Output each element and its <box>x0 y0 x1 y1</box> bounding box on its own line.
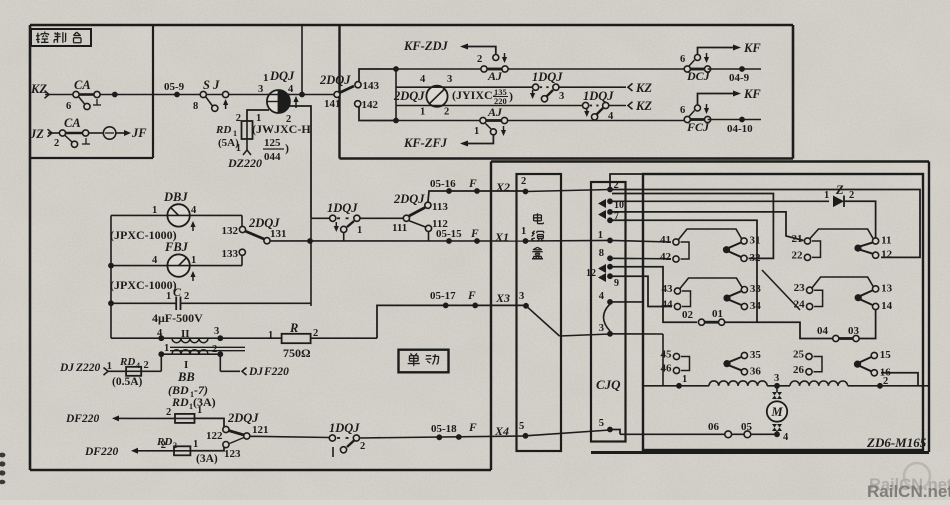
cable box 电缆盒 rectangle <box>517 174 562 451</box>
svg-text:2: 2 <box>360 441 365 452</box>
wire CJQ8 to contact 42 <box>610 257 671 260</box>
wire CJQ12 to 02 contact <box>610 267 697 323</box>
CJQ connector box rectangle <box>591 182 626 442</box>
wire top rail <box>396 68 687 70</box>
svg-text:4: 4 <box>288 84 294 95</box>
svg-text:131: 131 <box>270 228 287 240</box>
wire KF (DCJ) <box>698 48 735 55</box>
svg-text:121: 121 <box>252 424 269 436</box>
node winding 3 <box>774 383 780 389</box>
wire X1 to CJQ 1 <box>526 239 611 242</box>
svg-text:05-9: 05-9 <box>164 81 185 93</box>
wire CJQ spare to 21 group <box>610 212 804 241</box>
svg-text:1: 1 <box>164 343 169 354</box>
svg-text:2: 2 <box>313 328 318 339</box>
svg-text:DJ: DJ <box>59 362 75 374</box>
svg-text:41: 41 <box>660 234 671 246</box>
wire X4 to CJQ 5 <box>526 430 611 436</box>
svg-text:15: 15 <box>880 349 892 361</box>
wire winding rail <box>643 385 709 387</box>
svg-text:1: 1 <box>598 230 603 241</box>
svg-text:KZ: KZ <box>30 82 47 96</box>
contact group 25/26 <box>806 353 812 359</box>
svg-text:1: 1 <box>420 107 425 118</box>
svg-text:5: 5 <box>519 421 524 432</box>
svg-text:1: 1 <box>166 291 171 302</box>
contact group 31/32 <box>741 238 747 244</box>
right outdoor-area box bottom edge <box>591 451 929 454</box>
svg-text:22: 22 <box>792 249 804 261</box>
svg-text:04-10: 04-10 <box>727 123 753 135</box>
wire left bus <box>110 215 112 338</box>
wire overhead 21-11 <box>810 229 873 239</box>
svg-text:44: 44 <box>662 299 674 311</box>
node 04-9 <box>708 68 761 70</box>
watermark circle <box>904 463 930 489</box>
svg-text:BB: BB <box>177 370 195 384</box>
terminal 05 <box>744 431 751 438</box>
wire 112 down to X1 row <box>428 231 430 241</box>
svg-text:13: 13 <box>881 282 893 294</box>
relay DBJ (JPXC-1000) <box>111 214 242 216</box>
svg-text:6: 6 <box>680 105 685 116</box>
wire bottom rail <box>396 120 687 122</box>
svg-text:X3: X3 <box>495 291 510 305</box>
svg-text:45: 45 <box>661 349 673 361</box>
svg-text:4: 4 <box>783 432 789 443</box>
svg-text:R: R <box>289 321 298 335</box>
svg-text:32: 32 <box>750 252 762 264</box>
svg-text:25: 25 <box>793 349 805 361</box>
terminal CJQ 12 group <box>607 264 613 270</box>
wire 121 to 1DQJ contact <box>250 436 331 437</box>
contact group 33/34 <box>741 287 747 293</box>
diode Z <box>610 200 829 202</box>
wire jumper CJQ 4-3 <box>604 304 611 331</box>
contact group 23/24 <box>807 287 813 293</box>
wire 142 to bottom rail <box>359 107 396 121</box>
svg-text:1DQJ: 1DQJ <box>583 89 614 103</box>
svg-text:04: 04 <box>817 325 829 337</box>
svg-text:X1: X1 <box>494 230 509 244</box>
svg-text:3: 3 <box>519 291 524 302</box>
svg-text:2: 2 <box>236 113 241 124</box>
svg-text:1: 1 <box>682 374 687 385</box>
svg-text:4: 4 <box>152 255 158 266</box>
svg-text:ZD6-M165: ZD6-M165 <box>866 435 927 450</box>
svg-text:111: 111 <box>392 222 407 234</box>
contact group 21/22 <box>804 238 810 244</box>
svg-text:F220: F220 <box>263 366 289 378</box>
svg-text:02: 02 <box>682 309 694 321</box>
wire motor bottom row 06 05 <box>620 433 777 435</box>
svg-text:26: 26 <box>793 364 805 376</box>
transformer BB winding II bumps <box>172 338 181 343</box>
terminal CJQ spare arrows <box>607 198 613 204</box>
wire X2 to CJQ 2 <box>526 190 611 192</box>
svg-text:RailCN.net: RailCN.net <box>867 482 950 500</box>
svg-text:CJQ: CJQ <box>596 377 621 392</box>
svg-text:X4: X4 <box>494 424 509 438</box>
svg-text:(JYIXC-: (JYIXC- <box>452 88 497 102</box>
transformer BB winding I <box>161 353 220 355</box>
svg-text:KF: KF <box>743 87 761 101</box>
svg-text:AJ: AJ <box>487 69 503 83</box>
svg-text:F: F <box>467 290 476 302</box>
contact group 15/16 <box>871 352 877 358</box>
svg-text:): ) <box>509 89 513 103</box>
svg-text:3: 3 <box>258 84 263 95</box>
svg-text:FCJ: FCJ <box>686 120 710 134</box>
svg-text:122: 122 <box>206 430 223 442</box>
svg-text:JF: JF <box>131 126 147 140</box>
right outdoor-area box left edge <box>490 162 492 471</box>
svg-text:123: 123 <box>224 448 241 460</box>
svg-text:142: 142 <box>362 99 379 111</box>
contact group 35/36 <box>741 352 747 358</box>
svg-text:133: 133 <box>222 248 239 260</box>
svg-text:143: 143 <box>363 80 380 92</box>
wire overhead 41-31 <box>679 229 742 240</box>
svg-text:33: 33 <box>750 283 762 295</box>
svg-text:): ) <box>285 141 289 155</box>
contact 02/01 <box>698 319 704 325</box>
wire 01 to 04 row <box>725 322 833 338</box>
wire to 2DQJ 111 contact <box>360 217 403 219</box>
arrow to JF <box>116 132 125 134</box>
wire relay pin1 to fuse RD1 <box>247 110 269 121</box>
svg-text:1: 1 <box>152 205 157 216</box>
svg-text:4: 4 <box>191 205 197 216</box>
svg-text:KF-ZDJ: KF-ZDJ <box>403 39 449 53</box>
transformer core <box>170 346 245 348</box>
svg-text:(0.5A): (0.5A) <box>112 376 143 388</box>
svg-text:9: 9 <box>614 278 619 289</box>
ZD6-M165 switch machine box <box>643 174 923 450</box>
wire diode to contact 11 <box>844 201 876 238</box>
frame: bottom edge of left cabinet box <box>30 469 491 472</box>
wire CJQ3 to winding terminal 1 <box>610 333 663 335</box>
svg-text:2DQJ: 2DQJ <box>393 192 425 206</box>
svg-text:1DQJ: 1DQJ <box>329 421 360 435</box>
svg-text:750Ω: 750Ω <box>283 346 311 360</box>
svg-text:2: 2 <box>477 54 482 65</box>
svg-text:1DQJ: 1DQJ <box>532 70 563 84</box>
wire winding I right to DJF220 <box>219 354 221 371</box>
svg-text:3: 3 <box>447 74 452 85</box>
svg-text:F: F <box>468 422 477 434</box>
svg-text:2: 2 <box>166 407 171 418</box>
svg-text:113: 113 <box>432 201 448 213</box>
wire cable-box diagonal X3 to CJQ3 level <box>526 306 560 336</box>
svg-text:04-9: 04-9 <box>729 72 750 84</box>
svg-text:1: 1 <box>521 226 526 237</box>
wire X3 row 05-17 <box>377 305 526 338</box>
svg-text:CA: CA <box>74 78 91 92</box>
winding coil 1-3 <box>709 381 719 386</box>
right outdoor-area box right edge <box>928 162 930 453</box>
node junction top rail <box>393 66 399 72</box>
wire crossing link <box>762 270 800 310</box>
svg-text:DCJ: DCJ <box>686 69 711 83</box>
svg-text:M: M <box>770 405 783 419</box>
wire overhead 43-33 <box>680 278 742 289</box>
svg-text:1: 1 <box>263 72 269 84</box>
wire 113 to X2 row <box>428 191 526 202</box>
svg-text:1DQJ: 1DQJ <box>327 201 358 215</box>
svg-text:Z: Z <box>835 183 844 197</box>
svg-text:(3A): (3A) <box>196 453 218 465</box>
wire KF-ZFJ <box>466 135 493 144</box>
svg-text:03: 03 <box>848 325 860 337</box>
svg-text:RD: RD <box>119 356 135 368</box>
svg-text:125: 125 <box>264 137 281 149</box>
svg-text:12: 12 <box>881 249 893 261</box>
svg-text:DBJ: DBJ <box>163 190 188 204</box>
wire CJQ9 to 44 <box>610 276 672 306</box>
motor M <box>776 386 778 392</box>
node 04-10 <box>708 119 761 121</box>
svg-text:1: 1 <box>474 126 479 137</box>
svg-text:43: 43 <box>662 283 674 295</box>
wire fuse to DZ220 <box>246 139 248 150</box>
svg-text:DF220: DF220 <box>65 413 99 425</box>
svg-text:23: 23 <box>794 282 806 294</box>
wire 05-15 / X1 row <box>270 240 526 242</box>
contact 04/03 <box>833 335 839 341</box>
single-operation box 单动 <box>399 350 449 373</box>
frame: left edge of console/relay cabinet box <box>29 25 32 470</box>
svg-text:12: 12 <box>586 268 596 279</box>
svg-text:132: 132 <box>222 225 239 237</box>
right outdoor-area box top edge <box>491 160 929 162</box>
svg-text:KF: KF <box>743 41 761 55</box>
svg-text:II: II <box>181 328 190 340</box>
svg-text:6: 6 <box>680 54 685 65</box>
svg-text:2: 2 <box>184 291 189 302</box>
node winding 2 <box>877 383 883 389</box>
svg-text:141: 141 <box>324 98 341 110</box>
svg-text:42: 42 <box>660 251 672 263</box>
svg-text:2DQJ: 2DQJ <box>393 89 425 103</box>
wire overhead 23-13 <box>812 277 873 288</box>
contact DCJ <box>684 66 690 72</box>
wire ZD6 top edge to CJQ 2 <box>610 174 643 187</box>
svg-text:14: 14 <box>881 300 893 312</box>
svg-text:CA: CA <box>64 116 81 130</box>
capacitor C 4uF-500V <box>108 300 114 306</box>
winding coil 3-2 <box>790 381 800 386</box>
contact group 45/46 <box>673 353 679 359</box>
svg-text:KZ: KZ <box>635 81 652 95</box>
relay 2DQJ coil (JYJXC-135/220) <box>426 86 447 107</box>
wire transformer primary row <box>111 337 282 339</box>
wire vertical 396 linking rails <box>395 69 397 121</box>
contact group 11/12 <box>873 238 879 244</box>
page edge mark <box>0 453 5 458</box>
console box bottom edge <box>30 157 153 159</box>
wire CJQ2 bus to contact 12 <box>610 190 920 258</box>
svg-text:KF-ZFJ: KF-ZFJ <box>403 136 448 150</box>
svg-text:6: 6 <box>66 101 71 112</box>
contact 1DQJ (X1 feed) <box>311 217 330 219</box>
wire contact 32 to upper bus <box>612 194 773 259</box>
svg-text:RD: RD <box>171 395 189 409</box>
svg-text:3: 3 <box>599 323 604 334</box>
wire CJQ4 stub <box>610 301 643 303</box>
svg-text:4: 4 <box>599 291 605 302</box>
svg-text:2: 2 <box>144 360 149 371</box>
svg-text:2: 2 <box>54 138 59 149</box>
junction dot <box>112 92 118 98</box>
wire row B to KZ arrow <box>608 105 626 107</box>
svg-text:FBJ: FBJ <box>164 240 189 254</box>
fuse RD4 0.5A and DJZ220 feed <box>160 354 162 371</box>
wire CJQ1 to contact 41 <box>610 240 671 242</box>
svg-text:11: 11 <box>881 235 891 247</box>
svg-text:01: 01 <box>712 308 723 320</box>
svg-text:3: 3 <box>559 91 564 102</box>
wire KF-ZDJ <box>466 47 496 55</box>
wire 143 to top rail <box>359 69 396 82</box>
svg-text:4: 4 <box>136 361 140 370</box>
svg-text:DQJ: DQJ <box>269 69 295 83</box>
svg-text:1: 1 <box>191 255 196 266</box>
svg-text:1: 1 <box>197 405 202 416</box>
frame: main outline top edge <box>30 24 793 27</box>
svg-text:X2: X2 <box>495 180 510 194</box>
svg-text:2: 2 <box>521 176 526 187</box>
svg-text:31: 31 <box>750 235 761 247</box>
svg-text:4: 4 <box>420 74 426 85</box>
svg-text:Z220: Z220 <box>75 362 101 374</box>
console label box 控制台 <box>31 29 91 46</box>
contact group 13/14 <box>873 286 879 292</box>
svg-text:2: 2 <box>883 376 888 387</box>
upper-right relay box left edge <box>338 25 340 159</box>
svg-text:JZ: JZ <box>29 127 44 141</box>
svg-text:1: 1 <box>193 439 198 450</box>
svg-text:2DQJ: 2DQJ <box>319 73 351 87</box>
svg-text:2: 2 <box>849 190 854 201</box>
svg-text:2: 2 <box>212 344 217 355</box>
svg-text:05-17: 05-17 <box>430 290 456 302</box>
wire JZ row <box>48 132 63 134</box>
wire CJQ spare lower <box>610 220 757 322</box>
svg-text:AJ: AJ <box>487 105 503 119</box>
svg-text:06: 06 <box>708 421 720 433</box>
upper-right relay box right edge <box>792 25 795 159</box>
wire row A to KZ arrow <box>558 86 626 88</box>
svg-text:1: 1 <box>236 143 241 154</box>
wire vertical bus to capacitor row <box>310 218 312 306</box>
svg-text:F: F <box>468 178 477 190</box>
lamp JF <box>103 127 115 139</box>
contact FCJ <box>684 116 690 122</box>
svg-text:5: 5 <box>599 418 604 429</box>
svg-text:3: 3 <box>774 373 779 384</box>
svg-text:044: 044 <box>264 151 281 163</box>
svg-text:1: 1 <box>268 330 273 341</box>
wire 05-18 row to X4 <box>359 436 526 438</box>
svg-text:05: 05 <box>741 421 753 433</box>
svg-text:35: 35 <box>750 349 762 361</box>
svg-text:S J: S J <box>203 78 220 92</box>
console box right edge <box>152 25 154 158</box>
svg-text:(JWJXC-H: (JWJXC-H <box>252 122 311 136</box>
svg-text:4: 4 <box>157 328 163 339</box>
wire 03 to contact 14 <box>859 310 876 339</box>
svg-text:05-16: 05-16 <box>430 178 456 190</box>
svg-text:2: 2 <box>444 107 449 118</box>
svg-text:46: 46 <box>661 363 673 375</box>
wire KZ row <box>45 94 337 96</box>
wire relay pin2 to vertical bus <box>289 106 311 218</box>
node winding 1 <box>676 383 682 389</box>
svg-text:1: 1 <box>824 190 829 201</box>
terminal 06 <box>725 431 732 438</box>
upper-right relay box bottom edge <box>340 157 794 160</box>
svg-text:DJ: DJ <box>248 366 264 378</box>
wire 16 to rail <box>881 373 918 386</box>
vertical wire from top edge to KZ row <box>301 25 303 95</box>
svg-text:KZ: KZ <box>635 99 652 113</box>
svg-text:8: 8 <box>193 101 198 112</box>
svg-text:3: 3 <box>214 326 219 337</box>
svg-text:2: 2 <box>173 441 177 450</box>
svg-text:8: 8 <box>599 248 604 259</box>
svg-text:05-18: 05-18 <box>431 423 457 435</box>
svg-text:DF220: DF220 <box>84 446 118 458</box>
contact group 43/44 <box>674 288 680 294</box>
svg-text:(JPXC-1000): (JPXC-1000) <box>110 278 177 292</box>
svg-text:36: 36 <box>750 365 762 377</box>
wire KF (FCJ) <box>698 94 735 106</box>
svg-text:DZ220: DZ220 <box>227 156 262 170</box>
contact group 41/42 <box>673 239 679 245</box>
contact 2DQJ 131/132/133 <box>241 215 243 226</box>
svg-text:2DQJ: 2DQJ <box>227 411 259 425</box>
svg-text:RD: RD <box>215 124 231 136</box>
svg-text:C: C <box>173 285 182 299</box>
svg-text:1: 1 <box>357 225 362 236</box>
fuse RD1 5A <box>242 121 253 139</box>
node junction bottom rail <box>393 118 399 124</box>
svg-text:21: 21 <box>792 233 803 245</box>
relay FBJ (JPXC-1000) <box>108 263 114 269</box>
svg-text:34: 34 <box>750 300 762 312</box>
svg-text:4μF-500V: 4μF-500V <box>152 311 203 325</box>
svg-text:2: 2 <box>161 440 166 451</box>
